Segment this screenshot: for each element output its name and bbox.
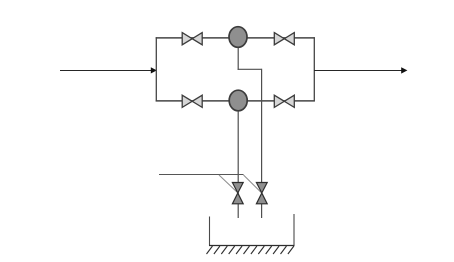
valve V6 — [256, 183, 267, 204]
wire loop right edge — [313, 37, 315, 101]
wire jog horizontal — [238, 68, 262, 70]
valve V5 — [232, 183, 243, 204]
tank right wall — [293, 214, 295, 246]
wire top branch — [156, 37, 315, 39]
wire outlet arrowhead — [401, 67, 407, 73]
wire outlet arrow line — [314, 70, 402, 72]
valve V2 — [274, 33, 294, 45]
wire actuator diagonal to V6 — [244, 175, 262, 193]
wire pump P2 drop to valve V5 — [237, 110, 239, 218]
wire inlet arrowhead — [151, 67, 157, 73]
valve V1 — [182, 33, 202, 45]
wire pump P1 drop to jog — [237, 47, 239, 70]
wire loop left edge — [155, 37, 157, 101]
wire actuator header — [159, 174, 244, 176]
wire actuator diagonal to V5 — [219, 175, 238, 193]
wire inlet arrow line — [60, 70, 152, 72]
ground hatching — [207, 246, 294, 254]
valve V4 — [274, 95, 294, 107]
pump P1 — [229, 27, 247, 48]
valve V3 — [182, 95, 202, 107]
wire bottom branch — [156, 100, 315, 102]
tank left wall — [209, 217, 211, 246]
pump P2 — [229, 90, 247, 111]
wire jog drop to valve V6 — [261, 69, 263, 218]
tank bottom — [209, 245, 295, 247]
